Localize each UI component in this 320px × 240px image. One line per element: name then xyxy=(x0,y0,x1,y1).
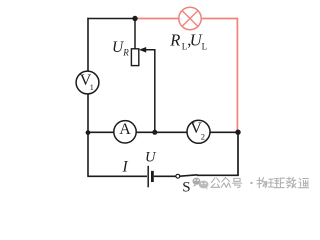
watermark logo: two chat bubbles xyxy=(193,178,209,190)
号 xyxy=(232,178,241,187)
voltmeter V1 xyxy=(76,71,99,94)
wire: top rail black from left corner to junction xyxy=(87,18,135,20)
node: right junction xyxy=(235,130,240,135)
svg-text:I: I xyxy=(122,158,129,175)
svg-text:S: S xyxy=(182,179,190,195)
node: middle junction (wiper to rail) xyxy=(152,130,157,135)
wire: red top rail junction to lamp and down right side xyxy=(135,19,237,133)
svg-text:R: R xyxy=(122,48,129,58)
rheostat R (rectangle) xyxy=(131,49,138,66)
switch S: pivot circle xyxy=(176,174,180,178)
通 xyxy=(298,178,308,187)
label V2 xyxy=(190,120,205,141)
理 xyxy=(268,179,279,188)
middle dot xyxy=(250,182,252,184)
switch S: lever xyxy=(180,175,198,176)
公 xyxy=(211,178,219,187)
众 xyxy=(221,178,230,188)
node: top junction xyxy=(132,16,137,21)
svg-text:L: L xyxy=(202,42,208,52)
ammeter A xyxy=(114,121,136,143)
svg-text:R: R xyxy=(169,30,180,49)
svg-text:A: A xyxy=(119,121,131,138)
svg-text:1: 1 xyxy=(90,82,94,92)
label V1 xyxy=(80,72,94,92)
watermark text: 公众号 · 物理E教通 (drawn as vector strokes) xyxy=(211,177,308,188)
wiper arrowhead xyxy=(139,47,146,53)
svg-text:2: 2 xyxy=(201,131,205,141)
label U_R (rheostat voltage) xyxy=(112,39,129,58)
wire: left rail vertical (through V1 position) xyxy=(87,18,89,177)
wire: wiper arm from arrow to middle rail xyxy=(145,50,155,132)
wire: bottom rail right (corner to switch) xyxy=(197,174,239,176)
教 xyxy=(287,177,296,188)
wire: bottom rail left (corner to battery) xyxy=(87,175,147,177)
wire: rheostat top stem xyxy=(134,19,136,50)
wire: black right vertical below junction xyxy=(237,132,239,176)
物 xyxy=(257,177,267,187)
svg-text:U: U xyxy=(145,150,157,166)
battery cell: short plate xyxy=(151,171,154,182)
lamp R_L (circle with X), red xyxy=(179,7,201,29)
node: left junction xyxy=(86,130,91,135)
E xyxy=(280,178,284,187)
label R_L,U_L (lamp) xyxy=(169,30,207,51)
wire: middle rail horizontal (through A and V2) xyxy=(87,131,238,133)
wire: battery to switch xyxy=(154,175,176,177)
battery cell: long plate xyxy=(147,166,149,188)
voltmeter V2 xyxy=(187,120,210,143)
